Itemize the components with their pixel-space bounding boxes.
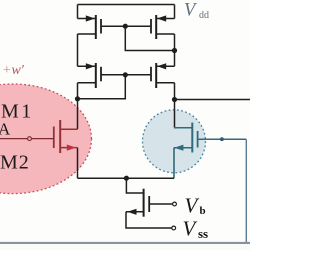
nmos M1/M2 drain lead	[60, 128, 77, 130]
pmos P3 drain lead	[78, 82, 96, 84]
pmos P2 source lead with arrow	[157, 18, 175, 20]
nmos MR channel	[191, 123, 193, 153]
pmos P2 drain lead	[156, 33, 174, 35]
pmos P4 (second-right)	[155, 63, 157, 88]
pmos P1 source lead with arrow	[78, 18, 96, 20]
svg-text:b: b	[200, 205, 206, 217]
pmos P4 drain lead	[156, 82, 174, 84]
nmos M1/M2 source arrow (red)	[67, 145, 76, 151]
svg-text:ss: ss	[198, 226, 208, 241]
nmos MR drain lead (down into circle)	[174, 100, 176, 128]
nmos MB gate lead	[149, 203, 173, 205]
wire left column seg1	[77, 5, 79, 19]
pmos P3 (second-left)	[95, 63, 97, 88]
nmos MB source lead	[126, 211, 144, 213]
nmos MB source arrow	[127, 209, 136, 215]
wire row2 gate to left drain	[78, 75, 126, 99]
nmos MR source lead	[174, 147, 192, 149]
pmos P1 drain lead	[78, 33, 96, 35]
wire left column seg3	[77, 83, 79, 129]
wire left column seg2	[77, 34, 79, 66]
nmos MB gate bar	[148, 196, 150, 212]
svg-text:V: V	[185, 194, 200, 218]
node right drain P2	[172, 48, 177, 53]
nmos MB drain lead	[126, 178, 143, 193]
wire right column seg3	[174, 83, 176, 100]
wire row1 gate bus	[101, 25, 151, 27]
highlight circle around right NMOS (blue dashed)	[143, 110, 206, 173]
wire output node	[172, 97, 177, 102]
node row2 gates	[123, 72, 128, 77]
wire right column seg1	[174, 5, 176, 19]
svg-text:M2: M2	[0, 152, 30, 174]
terminal A	[28, 137, 32, 141]
nmos MR gate lead	[198, 138, 247, 140]
nmos M1/M2 gate lead	[0, 138, 54, 140]
nmos MR gate bar	[197, 131, 199, 148]
nmos MR drain bend	[174, 127, 192, 129]
pmos P2 (top-right)	[155, 15, 157, 39]
terminal Vb	[173, 202, 177, 206]
pmos P3 source lead with arrow	[78, 65, 96, 67]
pmos P1 (top-left)	[95, 15, 97, 39]
svg-text:+w′: +w′	[2, 63, 25, 78]
svg-text:V: V	[183, 217, 198, 241]
wire output to right edge	[175, 99, 251, 101]
node bottom bus	[124, 176, 129, 181]
wire right vertical (blue)	[245, 139, 247, 242]
nmos MR source arrow	[174, 145, 183, 151]
nmos M1/M2 gate bar	[53, 127, 55, 149]
nmos MB channel	[143, 189, 145, 217]
highlight ellipse around M1/M2 (pink dashed)	[0, 84, 92, 194]
pmos P4 source lead with arrow	[157, 65, 175, 67]
wire row1 gate to right drain	[125, 26, 174, 50]
node left column A'	[75, 96, 80, 101]
frame bottom gray line	[0, 242, 250, 244]
node row1 gates	[123, 24, 128, 29]
wire MR source down	[173, 148, 175, 179]
svg-text:dd: dd	[199, 10, 209, 21]
nmos M1/M2 channel	[59, 120, 61, 153]
wire row2 gate bus	[101, 74, 151, 76]
wire right column seg2	[174, 34, 176, 66]
svg-text:A: A	[0, 120, 11, 139]
wire left column seg4	[77, 148, 79, 179]
wire Vdd rail	[78, 4, 175, 6]
node on gate lead	[220, 137, 224, 141]
nmos M1/M2 source lead	[60, 147, 77, 149]
wire MB source to Vss	[126, 212, 172, 228]
terminal Vss	[172, 226, 176, 230]
wire bottom bus	[78, 177, 175, 179]
